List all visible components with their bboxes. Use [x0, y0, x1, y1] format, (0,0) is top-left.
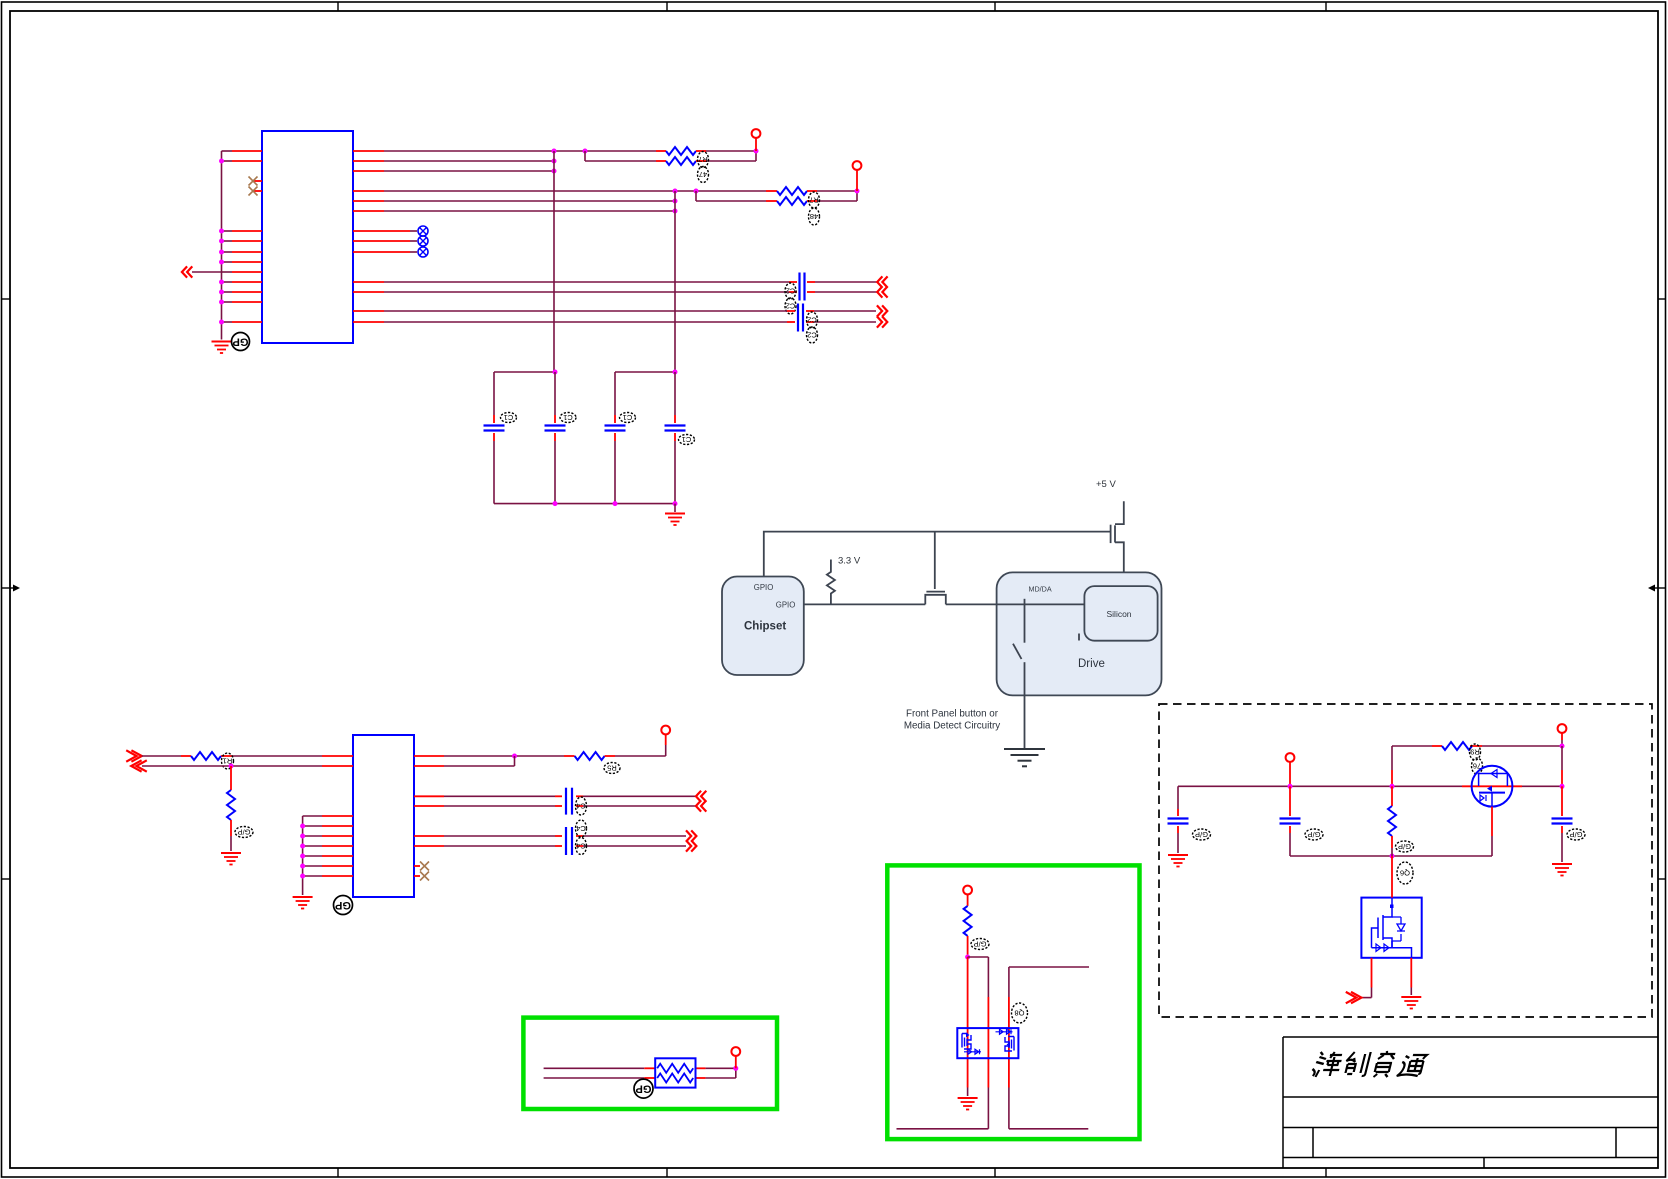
wire green1 right vert	[1008, 967, 1010, 1129]
wire Q5 drain down	[1491, 807, 1493, 856]
resistor R row756	[191, 752, 221, 760]
drive block	[997, 572, 1162, 695]
capacitor pair U2-B bars	[566, 827, 572, 855]
junction y856 x1392	[1390, 854, 1395, 859]
svg-text:G/P: G/P	[238, 828, 251, 837]
wire vert x1392	[1391, 746, 1393, 786]
svg-text:C2: C2	[807, 331, 817, 340]
svg-text:G/P: G/P	[974, 940, 987, 949]
chevron Q6 out	[1346, 992, 1362, 1003]
wire U2 row756 right	[414, 755, 564, 757]
ground Cd3	[1552, 864, 1572, 876]
pin U1 right y241	[353, 240, 384, 242]
refdes circle GP U1	[232, 333, 250, 351]
green highlight box 1	[887, 865, 1139, 1139]
refdes dual fet green1	[1012, 1003, 1028, 1023]
chevron row311	[877, 305, 887, 316]
terminal circle row151	[752, 129, 761, 138]
pin U1 right y191	[353, 190, 384, 192]
centre arrow right	[1648, 585, 1666, 592]
vertical bus x675	[674, 191, 676, 372]
svg-text:GP: GP	[335, 899, 351, 911]
capacitor pair U2-A bars	[566, 788, 572, 815]
wire green1 branch mid	[968, 957, 989, 1129]
refdes Q6	[1397, 862, 1413, 884]
svg-text:C2: C2	[786, 287, 796, 296]
junction row151 x554	[552, 149, 557, 154]
left pin bus U2	[302, 816, 304, 895]
junction green2	[733, 1066, 738, 1071]
wire U1 left pin y282	[222, 281, 263, 283]
capacitor pair2 series bars	[798, 304, 803, 332]
wire row151	[384, 150, 756, 152]
wire U2 left pin y856	[303, 855, 353, 857]
junction x554 y161	[552, 159, 557, 164]
wire U1 left pin y272	[222, 271, 263, 273]
resistor pack RP green2	[655, 1058, 695, 1087]
no-connect circle row241	[384, 236, 428, 246]
wire green1 left vert	[967, 957, 969, 1096]
terminal green2	[731, 1047, 740, 1056]
junction rail2 x675	[673, 370, 678, 375]
no-connect circle row231	[384, 226, 428, 236]
wire T2 stub	[1561, 733, 1563, 747]
junction U1 bus y322	[219, 320, 224, 325]
capacitor pair1 series bars	[800, 273, 805, 301]
junction y786 x1392	[1390, 784, 1395, 789]
wire Q6 pin left down	[1361, 958, 1371, 998]
pin U1 right y171	[353, 170, 384, 172]
svg-text:R7: R7	[809, 196, 819, 205]
transistor Q-pass (gpio pass FET)	[925, 592, 946, 605]
wire rp row1	[544, 1067, 736, 1069]
junction y786 x1562	[1560, 784, 1565, 789]
resistor pair2 lower + loop	[696, 191, 857, 205]
switch (front panel button)	[1013, 599, 1025, 749]
refdes circle GP U2	[334, 896, 353, 915]
junction U1 bus y292	[219, 290, 224, 295]
svg-text:R9: R9	[1470, 748, 1480, 757]
chevron row292	[877, 286, 887, 297]
svg-text:C1: C1	[563, 413, 573, 422]
svg-text:Chipset: Chipset	[744, 621, 786, 633]
wire row211	[384, 210, 675, 212]
chevron row282	[877, 276, 887, 287]
resistor green1	[964, 894, 972, 955]
svg-text:C2: C2	[807, 316, 817, 325]
svg-text:C1: C1	[682, 435, 692, 444]
terminal circle U2	[661, 726, 670, 735]
refdes top resistor	[1470, 744, 1483, 774]
svg-text:GPIO: GPIO	[754, 583, 774, 592]
wire chipset-top to gate rail	[764, 532, 1111, 577]
svg-text:G/P: G/P	[1570, 830, 1583, 839]
pin U1 right y201	[353, 200, 384, 202]
wire row292	[384, 291, 877, 293]
off-page connector chevron row272	[182, 266, 192, 277]
wire green1 rail bottom-right	[1009, 1128, 1088, 1130]
wire green1 rail bottom-left	[897, 1128, 989, 1130]
svg-text:G/P: G/P	[1308, 830, 1321, 839]
cap bank rail1	[494, 371, 555, 373]
wire to terminal green2	[735, 1056, 737, 1069]
svg-text:G/P: G/P	[1398, 842, 1411, 851]
wire U2 row796.3 right	[414, 795, 696, 797]
svg-text:GP: GP	[233, 336, 249, 348]
wire bottom rail y856	[1291, 855, 1492, 857]
pin U1 right y292	[353, 291, 384, 293]
svg-text:Q8: Q8	[1014, 1009, 1024, 1018]
svg-text:MD/DA: MD/DA	[1029, 585, 1052, 594]
wire U2 row836 right	[414, 835, 686, 837]
junction U1 bus y231	[219, 229, 224, 234]
pin U1 right y231	[353, 230, 384, 232]
refdes Cd1	[1193, 829, 1211, 840]
capacitor C11 column x555	[545, 372, 566, 504]
junction U2 bus y866	[300, 864, 305, 869]
silicon block	[1084, 586, 1157, 641]
wire to terminal U2	[665, 734, 667, 756]
svg-text:47: 47	[699, 170, 707, 179]
junction x675 y201	[673, 199, 678, 204]
pin U1 right y282	[353, 281, 384, 283]
wire U1 left pin y252	[222, 251, 263, 253]
junction U2 bus y836	[300, 834, 305, 839]
junction row191 x696	[694, 189, 699, 194]
ground Q6	[1401, 997, 1421, 1009]
title block	[1283, 1037, 1658, 1168]
junction U1 bus y302	[219, 300, 224, 305]
chevron row836	[686, 830, 696, 841]
resistor vert x1392	[1388, 786, 1396, 856]
capacitor Cd3	[1552, 786, 1573, 862]
wire rp row2	[544, 1068, 736, 1078]
svg-text:+5 V: +5 V	[1096, 479, 1116, 490]
wire U1 left pin y161	[222, 160, 263, 162]
wire U2 row806 right	[414, 805, 696, 807]
pin U1 right y311	[353, 310, 384, 312]
wire to terminal row191	[856, 170, 858, 192]
refdes R right	[604, 763, 620, 774]
wire U1 left pin y241	[222, 240, 263, 242]
junction y786 x1290	[1288, 784, 1293, 789]
ground (drive switch)	[1004, 749, 1045, 766]
svg-text:G/P: G/P	[1195, 830, 1208, 839]
ground U1 bus	[212, 342, 232, 354]
wire U2 left pin y836	[303, 835, 353, 837]
wire row322	[384, 321, 876, 323]
junction U2 bus y876	[300, 874, 305, 879]
junction green1	[965, 955, 970, 960]
transistor dual fet box green1	[957, 1028, 1018, 1058]
svg-text:Media Detect Circuitry: Media Detect Circuitry	[904, 721, 1000, 732]
pin U1 right y151	[353, 150, 384, 152]
junction row191 x857	[855, 189, 860, 194]
refdes vert resistor	[1396, 841, 1414, 852]
capacitor Cd1	[1168, 786, 1189, 853]
refdes R row756	[222, 753, 234, 769]
ground green1	[958, 1098, 978, 1110]
wire Q6 pin right down	[1410, 958, 1412, 995]
junction U2 bus y846	[300, 844, 305, 849]
svg-text:R7: R7	[698, 155, 708, 164]
svg-text:C4: C4	[576, 824, 586, 833]
refdes Cd3	[1567, 829, 1585, 840]
left pin bus U1	[221, 151, 223, 340]
wire row311	[384, 310, 876, 312]
junction U1 bus y161	[219, 159, 224, 164]
terminal circle row191	[853, 161, 862, 170]
refdes U2 caps labels	[576, 797, 587, 855]
junction bottom rail x615	[613, 501, 618, 506]
no-connect pin X y191	[249, 187, 263, 196]
refdes resistor green1	[971, 939, 989, 950]
refdes circle RP green2	[634, 1079, 653, 1098]
svg-text:Front Panel button or: Front Panel button or	[906, 709, 999, 720]
svg-text:C1: C1	[623, 413, 633, 422]
capacitor Cd2	[1280, 786, 1301, 856]
wire row756 left	[142, 755, 353, 757]
refdes pair2 labels	[809, 192, 820, 225]
wire row171	[384, 170, 554, 172]
wire row766 left	[142, 765, 353, 767]
svg-text:R5: R5	[607, 764, 617, 773]
chevron row756 left	[126, 750, 142, 761]
junction bottom rail x675	[673, 501, 678, 506]
wire green1 rail top-right	[1009, 966, 1089, 968]
svg-text:GP: GP	[636, 1083, 652, 1095]
chipset block	[722, 577, 804, 676]
cap bank bottom rail	[494, 503, 675, 505]
wire U1 left pin y322	[222, 321, 263, 323]
refdes cap bank labels	[501, 413, 517, 423]
chevron row766 left	[131, 760, 147, 771]
svg-text:Silicon: Silicon	[1107, 609, 1132, 619]
wire row282	[384, 281, 877, 283]
no-connect pin X y181	[249, 177, 263, 186]
wire U2 row846 right	[414, 845, 686, 847]
junction U1 bus y282	[219, 280, 224, 285]
junction row766 x231	[229, 764, 234, 769]
svg-text:Drive: Drive	[1078, 658, 1105, 670]
resistor pair1 lower + loop	[585, 151, 756, 165]
company logo text	[1310, 1051, 1427, 1077]
ground U2 bus	[293, 897, 313, 909]
wire gpio net	[804, 603, 997, 605]
ground cap bank	[665, 504, 685, 525]
junction U1 bus y262	[219, 260, 224, 265]
wire U2 left pin y876	[303, 875, 353, 877]
dashed boundary box	[1159, 704, 1652, 1017]
resistor top dashed box	[1442, 742, 1472, 750]
svg-text:C4: C4	[576, 842, 586, 851]
wire Q6 gate in	[1391, 856, 1393, 898]
IC U2	[353, 735, 414, 897]
junction x514 row756	[512, 754, 517, 759]
junction rail1 x555	[553, 370, 558, 375]
wire row161	[384, 160, 554, 162]
no-connect circle row252	[384, 247, 428, 257]
junction bottom rail x555	[553, 501, 558, 506]
wire to terminal row151	[755, 138, 757, 152]
chevron row322	[877, 316, 887, 327]
junction U1 bus y241	[219, 239, 224, 244]
wire U2 left pin y866	[303, 865, 353, 867]
green highlight box 2	[523, 1018, 777, 1109]
wire U2 row766 right	[414, 756, 515, 766]
resistor shunt R x231	[227, 766, 235, 851]
junction x554 y171	[552, 169, 557, 174]
svg-text:Q6: Q6	[1400, 869, 1410, 878]
ground shunt R	[221, 853, 241, 865]
transistor Q6 box fet	[1361, 898, 1421, 958]
svg-text:3.3 V: 3.3 V	[838, 556, 861, 567]
junction U1 bus y252	[219, 250, 224, 255]
wire net to off-page row272	[192, 271, 222, 273]
wire row191	[384, 190, 857, 192]
wire U1 left pin y262	[222, 261, 263, 263]
svg-text:C1: C1	[504, 413, 514, 422]
chevron row796	[696, 791, 706, 802]
wire U1 left pin y292	[222, 291, 263, 293]
junction y746 x1562	[1560, 744, 1565, 749]
wire U1 left pin y231	[222, 230, 263, 232]
wire row201	[384, 200, 675, 202]
capacitor C13 column x675	[665, 372, 686, 504]
pin U1 right y211	[353, 210, 384, 212]
svg-text:C2: C2	[786, 302, 796, 311]
wire vert x1562	[1561, 746, 1563, 786]
wire inside drive to silicon	[997, 603, 1085, 605]
chevron row846	[686, 840, 696, 851]
resistor R row756 right	[564, 752, 666, 760]
block diagram wires	[764, 532, 1111, 605]
wire U2 left pin y826	[303, 825, 353, 827]
svg-text:C4: C4	[576, 802, 586, 811]
junction U2 bus y856	[300, 854, 305, 859]
svg-text:GPIO: GPIO	[776, 601, 796, 610]
wire U1 left pin y151	[222, 150, 263, 152]
ground Cd1	[1168, 855, 1188, 867]
pullup resistor 3.3V	[827, 560, 835, 605]
no-connect U2 row876	[414, 872, 429, 881]
cap bank rail2	[615, 371, 675, 373]
terminal T1	[1286, 753, 1295, 762]
resistor pair2 upper	[766, 187, 817, 195]
wire U2 left pin y846	[303, 845, 353, 847]
refdes shunt R	[235, 827, 253, 838]
IC U1	[262, 131, 353, 343]
wire main net y786	[1178, 785, 1562, 787]
small I tick	[1078, 634, 1080, 641]
transistor Q-top (+5V high-side FET)	[1111, 501, 1124, 572]
centre arrow left	[2, 585, 20, 592]
capacitor C12 column x615	[605, 372, 626, 504]
wire U2 left pin y816	[303, 815, 353, 817]
terminal T2	[1558, 724, 1567, 733]
junction x675 y211	[673, 209, 678, 214]
junction row151 x585	[583, 149, 588, 154]
pin U1 right y322	[353, 321, 384, 323]
pin U1 right y252	[353, 251, 384, 253]
refdes Cd2	[1305, 829, 1323, 840]
wire gate drop to pass fet	[934, 532, 936, 589]
junction U2 bus y826	[300, 824, 305, 829]
refdes pair1 labels	[698, 152, 709, 183]
wire U1 left pin y302	[222, 301, 263, 303]
junction row151 x756	[754, 149, 759, 154]
pin U1 right y161	[353, 160, 384, 162]
wire top net y746	[1392, 745, 1562, 747]
svg-text:48: 48	[810, 212, 818, 221]
refdes cap pair1	[785, 283, 796, 314]
transistor Q5 circle pfet	[1472, 766, 1513, 807]
refdes cap pair2	[807, 312, 818, 343]
vertical bus x554	[553, 151, 555, 372]
no-connect U2 row866	[414, 862, 429, 871]
wire T1 stub	[1289, 762, 1291, 787]
resistor pair1 upper	[656, 147, 706, 155]
junction row191 x675	[673, 189, 678, 194]
terminal green1	[963, 886, 972, 895]
chevron row806	[696, 800, 706, 811]
capacitor C10 column x494	[484, 372, 505, 504]
